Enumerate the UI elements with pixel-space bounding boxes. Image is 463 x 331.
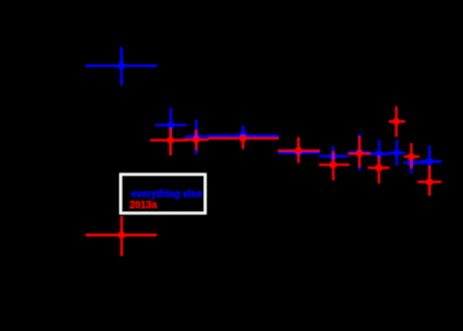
red point R6 <box>319 151 349 180</box>
red point R8 <box>368 156 389 183</box>
red point R5 <box>278 137 320 162</box>
blue point B4 <box>209 126 279 142</box>
blue point B2 <box>156 108 187 142</box>
blue point B8 <box>370 140 390 163</box>
red point R11 <box>418 166 441 195</box>
blue point B11 <box>419 146 441 169</box>
blue point B3 <box>185 120 208 154</box>
red point R4 <box>209 135 279 149</box>
blue point B5 <box>279 143 320 161</box>
blue point B9 <box>389 141 405 166</box>
red point R9 <box>389 107 405 137</box>
red point R7 <box>349 137 371 168</box>
legend box <box>121 174 206 213</box>
red point R2 <box>151 128 188 155</box>
svg-text:everything else: everything else <box>131 189 202 200</box>
blue point B6 <box>319 147 348 167</box>
svg-text:2013a: 2013a <box>130 200 158 211</box>
blue point B1 <box>86 48 158 86</box>
blue point B10 <box>404 156 425 174</box>
red point R1 <box>86 216 157 255</box>
red point R3 <box>183 130 209 150</box>
blue point B7 <box>349 134 371 171</box>
red point R10 <box>404 144 419 169</box>
